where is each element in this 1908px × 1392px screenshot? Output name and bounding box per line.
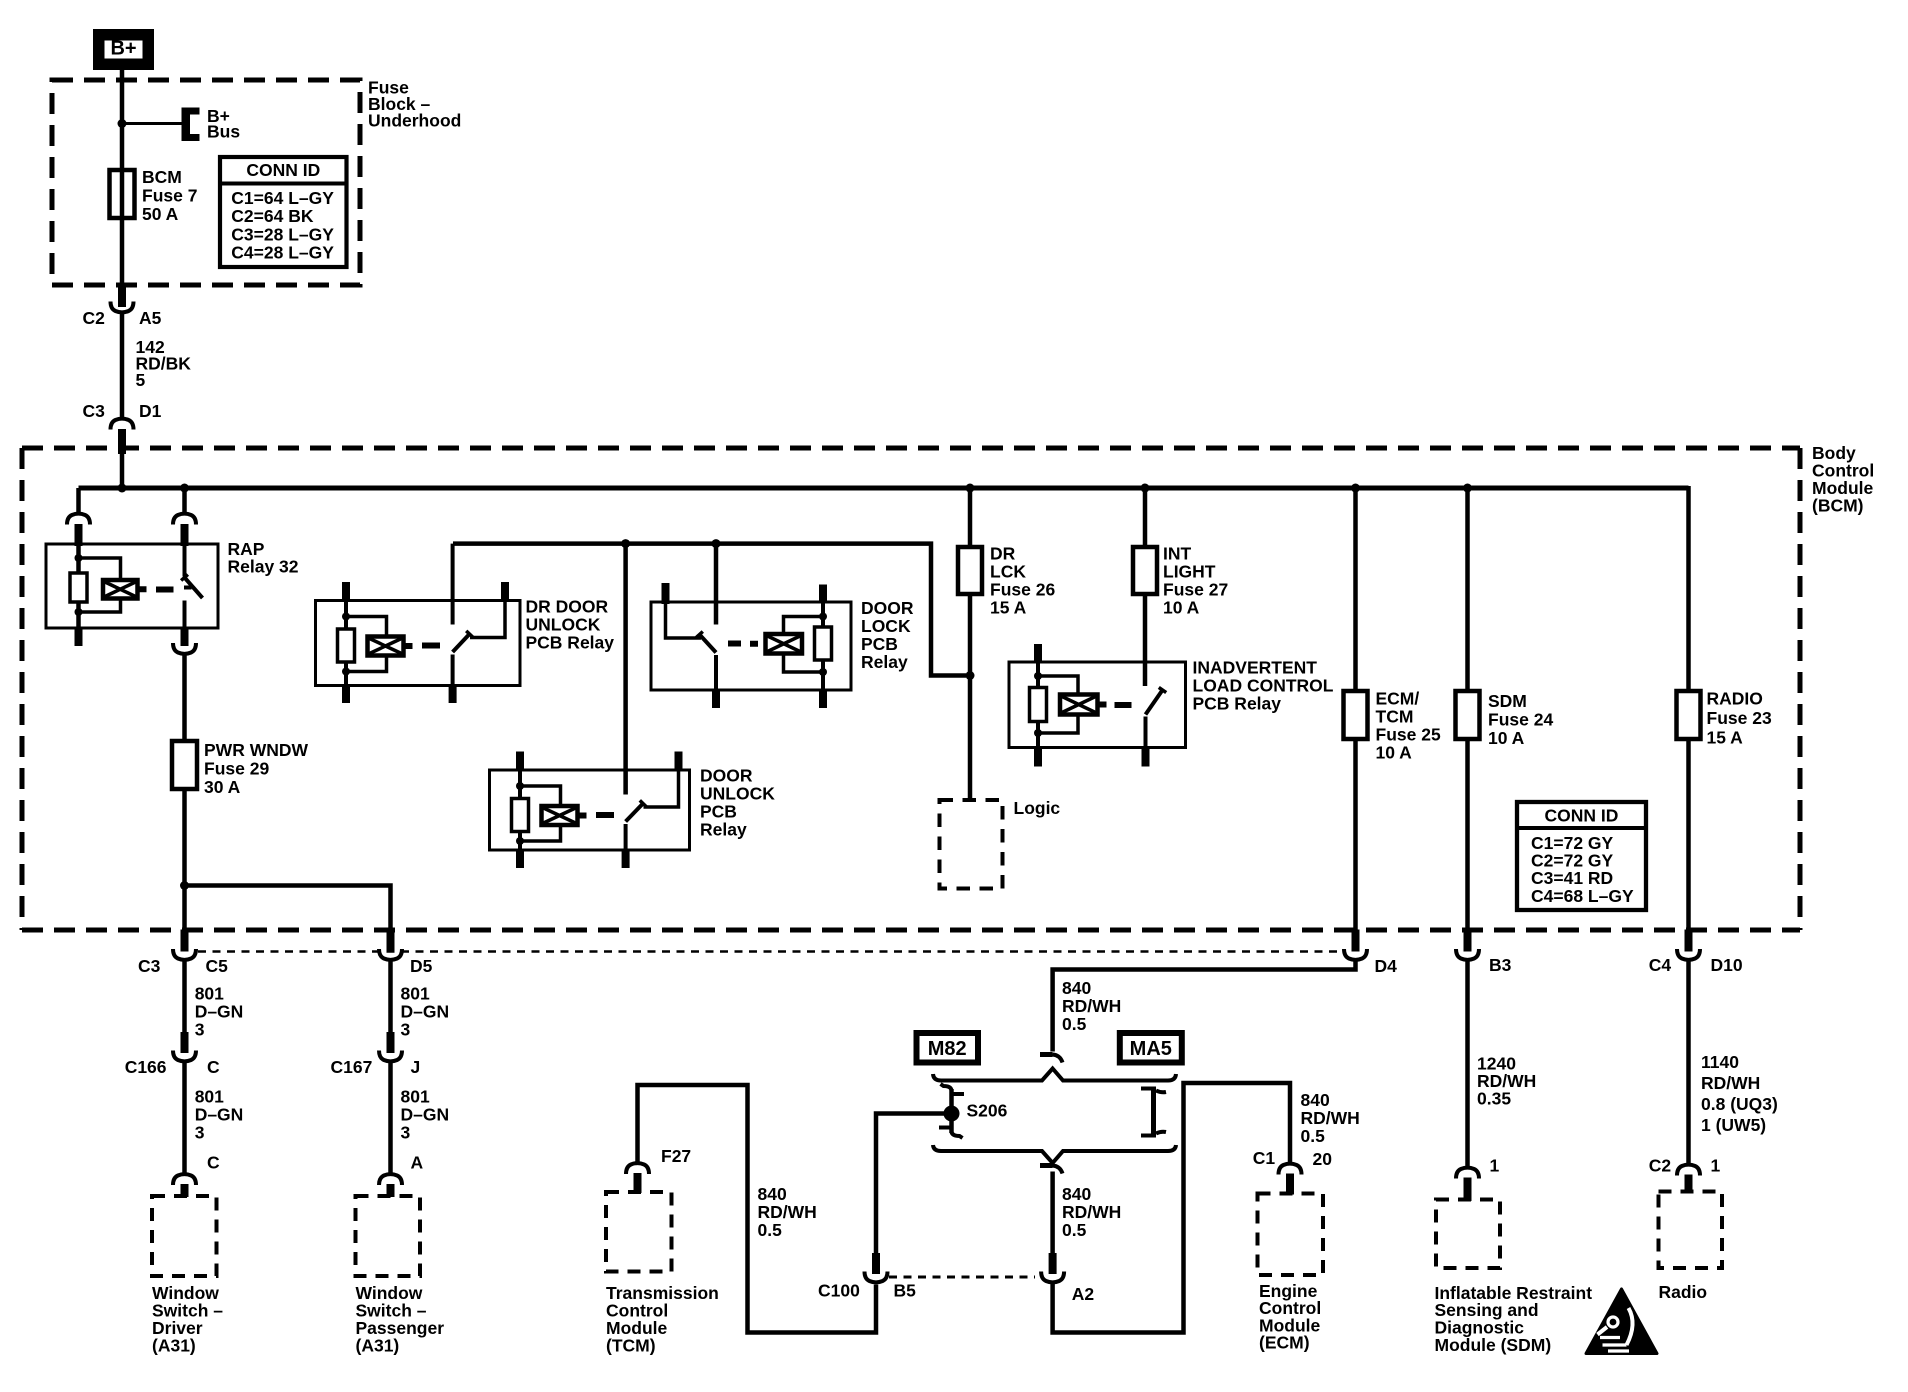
INADVERTENT coil leg <box>1036 662 1040 688</box>
junction dot bus at INT LIGHT fuse <box>1141 484 1150 493</box>
wire C166 to window switch driver <box>182 1061 187 1173</box>
fuse PWR WNDW Fuse 29 30 A <box>172 741 197 789</box>
wire into BCM <box>120 450 125 488</box>
svg-text:30 A: 30 A <box>204 777 241 797</box>
svg-text:801: 801 <box>195 1087 224 1107</box>
DOOR LOCK coil loop <box>784 617 824 635</box>
svg-text:Fuse 24: Fuse 24 <box>1488 709 1553 729</box>
RAP switch bottom pin <box>181 628 189 646</box>
BCM internal supply bus <box>79 486 1689 491</box>
DOOR UNLOCK switch blade <box>626 804 643 822</box>
body control module dashed box bottom <box>22 928 1800 933</box>
label box MA5 <box>1120 1033 1182 1063</box>
harness break symbol lower <box>1040 1163 1053 1168</box>
DOOR UNLOCK linkage dash <box>596 812 614 818</box>
DOOR UNLOCK coil top pin stub <box>516 752 524 772</box>
svg-text:SDM: SDM <box>1488 691 1527 711</box>
wire 142 RD/BK <box>120 313 125 418</box>
svg-text:10 A: 10 A <box>1163 597 1200 617</box>
relay switch feed bus <box>453 544 966 676</box>
fuse BCM Fuse 7 50 A <box>110 170 135 218</box>
fuse DR LCK Fuse 26 15 A <box>958 547 982 594</box>
junction dot switch feed tap <box>966 671 975 680</box>
relay DR DOOR UNLOCK box <box>316 601 521 686</box>
resistor RAP parallel <box>70 573 87 602</box>
connector C5 at BCM <box>181 930 189 952</box>
svg-text:BCM: BCM <box>142 167 182 187</box>
harness brace lower <box>933 1145 1176 1163</box>
inflatable restraint SDM dashed box <box>1436 1200 1500 1269</box>
fuse INT LIGHT Fuse 27 10 A <box>1133 547 1157 594</box>
svg-text:RD/WH: RD/WH <box>1701 1073 1760 1093</box>
body control module dashed box right <box>1798 448 1803 930</box>
INADVERTENT coil bottom pin stub <box>1034 748 1042 767</box>
svg-text:15 A: 15 A <box>1707 727 1744 747</box>
svg-text:3: 3 <box>195 1123 205 1143</box>
DR DOOR UNLOCK linkage dash <box>422 643 440 649</box>
wire branch to D5 <box>185 886 391 930</box>
DR DOOR UNLOCK coil top pin stub <box>342 582 350 602</box>
fuse ECM/TCM Fuse 25 10 A <box>1344 691 1368 739</box>
wire bus to RAP switch pin <box>182 488 187 513</box>
DOOR UNLOCK coil leg <box>518 770 522 799</box>
svg-text:C2: C2 <box>1649 1155 1672 1175</box>
svg-text:10 A: 10 A <box>1488 728 1525 748</box>
connector C2 pin A5 <box>118 285 126 307</box>
wire TCM F27 loop <box>638 1085 877 1333</box>
wire D4 to harness break <box>1053 960 1356 1052</box>
DOOR UNLOCK switch bottom pin stub <box>622 850 630 868</box>
svg-text:RD/WH: RD/WH <box>1062 1202 1121 1222</box>
RAP coil loop wires <box>79 558 121 580</box>
connector C3 pin D1 <box>111 419 134 430</box>
svg-text:Relay 32: Relay 32 <box>228 556 299 576</box>
connector B3 at BCM <box>1464 930 1472 952</box>
svg-text:(A31): (A31) <box>356 1335 400 1355</box>
junction dot bus at ECM/TCM fuse <box>1351 484 1360 493</box>
svg-text:CONN ID: CONN ID <box>246 160 320 180</box>
svg-text:C4=28 L–GY: C4=28 L–GY <box>231 243 334 263</box>
wire INT LIGHT fuse to INADVERTENT switch <box>1143 594 1148 686</box>
window switch passenger dashed box <box>356 1196 421 1276</box>
svg-text:0.8 (UQ3): 0.8 (UQ3) <box>1701 1094 1778 1114</box>
connector window switch passenger <box>379 1174 402 1185</box>
junction dot bus at C3 feed <box>118 484 127 493</box>
svg-text:LOAD CONTROL: LOAD CONTROL <box>1193 675 1334 695</box>
INADVERTENT switch blade <box>1146 690 1163 715</box>
svg-text:C166: C166 <box>125 1057 167 1077</box>
connector RAP coil pin <box>67 514 90 525</box>
svg-text:0.5: 0.5 <box>1062 1014 1087 1034</box>
svg-text:840: 840 <box>1062 1184 1091 1204</box>
resistor INADVERTENT <box>1030 688 1047 722</box>
svg-text:A5: A5 <box>139 308 162 328</box>
wire ECM/TCM fuse to D4 <box>1353 739 1358 930</box>
DOOR LOCK switch bottom contact <box>714 655 718 690</box>
wire to B+ bus <box>122 122 182 125</box>
svg-text:0.5: 0.5 <box>1301 1126 1326 1146</box>
wire S206 feed from C100 <box>876 1114 952 1254</box>
wire feed down to DOOR LOCK switch <box>714 544 719 625</box>
svg-text:UNLOCK: UNLOCK <box>700 783 775 803</box>
RAP coil leg junction dots <box>75 554 83 562</box>
svg-text:840: 840 <box>1301 1090 1330 1110</box>
svg-text:0.5: 0.5 <box>758 1220 783 1240</box>
svg-text:A: A <box>411 1152 424 1172</box>
svg-text:D–GN: D–GN <box>195 1001 244 1021</box>
DOOR UNLOCK throw contact L-wire <box>644 770 679 807</box>
wire break to A2 <box>1050 1172 1055 1254</box>
wire DR LCK fuse to Logic <box>968 594 973 800</box>
svg-text:Logic: Logic <box>1014 798 1061 818</box>
connector F27 at TCM <box>626 1163 649 1174</box>
svg-text:Fuse 7: Fuse 7 <box>142 185 197 205</box>
wire D10 to Radio <box>1686 960 1691 1164</box>
wire C167 to window switch passenger <box>388 1061 393 1173</box>
svg-text:INT: INT <box>1163 543 1192 563</box>
B+ Bus terminal symbol <box>182 108 191 142</box>
window switch driver dashed box <box>152 1196 217 1276</box>
DOOR LOCK coil leg <box>821 602 825 627</box>
svg-text:DOOR: DOOR <box>861 598 914 618</box>
DOOR LOCK throw contact L-wire <box>666 602 702 638</box>
svg-text:PCB: PCB <box>700 801 737 821</box>
RAP switch blade <box>185 578 203 599</box>
INADVERTENT switch bottom contact <box>1144 717 1148 748</box>
svg-text:A2: A2 <box>1072 1284 1095 1304</box>
DR DOOR UNLOCK coil leg <box>344 601 348 630</box>
DOOR LOCK coil top pin stub <box>819 585 827 603</box>
DOOR UNLOCK right pin stub <box>675 752 683 772</box>
svg-text:C167: C167 <box>331 1057 373 1077</box>
wire bus to INT LIGHT fuse <box>1143 488 1148 548</box>
DR DOOR UNLOCK right pin stub <box>501 582 509 602</box>
svg-text:1 (UW5): 1 (UW5) <box>1701 1115 1766 1135</box>
DOOR LOCK switch bottom pin stub <box>712 690 720 708</box>
svg-text:RD/WH: RD/WH <box>1301 1108 1360 1128</box>
svg-text:0.35: 0.35 <box>1477 1088 1511 1108</box>
svg-text:1140: 1140 <box>1701 1052 1739 1072</box>
svg-text:UNLOCK: UNLOCK <box>526 615 601 635</box>
svg-text:3: 3 <box>401 1123 411 1143</box>
label box M82 <box>917 1033 979 1063</box>
coil DOOR LOCK <box>766 634 803 654</box>
coil DR DOOR UNLOCK <box>368 637 404 656</box>
svg-text:J: J <box>411 1057 421 1077</box>
harness break symbol upper <box>1040 1052 1053 1057</box>
connector C100 dotted line <box>889 1276 1035 1279</box>
INADVERTENT coil loop <box>1038 676 1078 695</box>
junction dot at B+ bus tap <box>118 119 127 128</box>
svg-text:C: C <box>207 1057 220 1077</box>
RAP coil leg wire <box>76 546 81 573</box>
connector D4 at BCM <box>1352 930 1360 952</box>
svg-text:CONN ID: CONN ID <box>1545 805 1619 825</box>
radio dashed box <box>1659 1192 1723 1269</box>
junction dot feed to DOOR LOCK relay <box>712 539 721 548</box>
connector A2 <box>1049 1253 1057 1274</box>
svg-text:D–GN: D–GN <box>401 1001 450 1021</box>
junction dot bus at DR LCK fuse <box>966 484 975 493</box>
svg-text:PCB Relay: PCB Relay <box>526 633 615 653</box>
splice terminal S206 hooks <box>941 1084 952 1090</box>
svg-text:C5: C5 <box>206 956 229 976</box>
junction dot window feed split <box>180 881 189 890</box>
wire C5 to C166 <box>182 960 187 1033</box>
CONN ID table BCM <box>1517 802 1646 910</box>
DR DOOR UNLOCK coil junction dots <box>342 613 350 621</box>
coil DOOR UNLOCK <box>542 806 578 825</box>
wire B+ down through fuse block <box>120 70 125 285</box>
junction dot bus at SDM fuse <box>1463 484 1472 493</box>
svg-text:Fuse 29: Fuse 29 <box>204 758 269 778</box>
svg-text:3: 3 <box>401 1019 411 1039</box>
DOOR LOCK left pin stub <box>662 583 670 604</box>
svg-text:840: 840 <box>758 1184 787 1204</box>
wire SDM fuse to B3 <box>1465 739 1470 930</box>
coil INADVERTENT <box>1060 695 1098 715</box>
svg-text:DOOR: DOOR <box>700 765 753 785</box>
DOOR UNLOCK coil junction dots <box>516 782 524 790</box>
DR DOOR UNLOCK switch blade <box>453 634 470 652</box>
svg-text:1: 1 <box>1711 1155 1721 1175</box>
DOOR UNLOCK switch top contact <box>624 770 628 795</box>
svg-text:C1=64 L–GY: C1=64 L–GY <box>231 188 334 208</box>
svg-text:5: 5 <box>136 370 146 390</box>
svg-text:801: 801 <box>401 1087 430 1107</box>
INADVERTENT switch bottom pin stub <box>1142 748 1150 767</box>
wire bus to RAP coil pin <box>76 488 81 513</box>
wire B3 to SDM <box>1465 960 1470 1167</box>
DOOR UNLOCK switch bottom contact <box>624 824 628 850</box>
fuse RADIO Fuse 23 15 A <box>1677 691 1701 739</box>
Logic dashed box <box>940 800 1003 889</box>
svg-text:(ECM): (ECM) <box>1259 1333 1310 1353</box>
svg-text:C2: C2 <box>83 308 106 328</box>
resistor DOOR UNLOCK <box>512 799 529 832</box>
relay INADVERTENT LOAD CONTROL box <box>1009 662 1186 748</box>
svg-text:ECM/: ECM/ <box>1376 688 1420 708</box>
transmission control module dashed box <box>606 1192 672 1272</box>
wire feed down to DOOR UNLOCK switch <box>623 544 628 795</box>
wire RADIO fuse to D10 <box>1686 739 1691 930</box>
svg-text:MA5: MA5 <box>1130 1038 1172 1060</box>
splice terminal MA5-side <box>1151 1090 1156 1135</box>
svg-text:C100: C100 <box>818 1280 860 1300</box>
wire bus corner to RADIO fuse <box>1686 486 1691 692</box>
coil RAP <box>103 580 138 599</box>
connector SDM pin 1 <box>1456 1168 1479 1179</box>
relay DOOR LOCK box <box>651 602 851 690</box>
svg-text:Fuse 23: Fuse 23 <box>1707 708 1772 728</box>
svg-text:C3=28 L–GY: C3=28 L–GY <box>231 224 334 244</box>
DR DOOR UNLOCK coil loop <box>346 617 387 637</box>
body control module dashed box top <box>22 446 1800 451</box>
svg-text:LCK: LCK <box>990 561 1026 581</box>
DOOR LOCK coil junction dots <box>819 613 827 621</box>
wire bus to SDM fuse <box>1465 488 1470 692</box>
svg-text:801: 801 <box>401 983 430 1003</box>
svg-text:PCB: PCB <box>861 634 898 654</box>
connector RAP switch pin <box>173 514 196 525</box>
svg-text:RADIO: RADIO <box>1707 688 1763 708</box>
svg-text:D4: D4 <box>1375 956 1398 976</box>
DR DOOR UNLOCK switch top contact <box>451 544 455 625</box>
relay DOOR UNLOCK box <box>490 770 690 850</box>
svg-text:RD/WH: RD/WH <box>1062 996 1121 1016</box>
svg-text:Radio: Radio <box>1659 1282 1708 1302</box>
svg-text:TCM: TCM <box>1376 706 1414 726</box>
svg-text:D–GN: D–GN <box>401 1105 450 1125</box>
svg-text:Bus: Bus <box>207 121 240 141</box>
DOOR LOCK switch blade <box>700 635 717 653</box>
svg-text:LOCK: LOCK <box>861 616 911 636</box>
svg-text:20: 20 <box>1313 1149 1333 1169</box>
svg-text:15 A: 15 A <box>990 597 1027 617</box>
wire D5 to C167 <box>388 960 393 1033</box>
svg-text:10 A: 10 A <box>1376 742 1413 762</box>
svg-text:DR DOOR: DR DOOR <box>526 596 609 616</box>
svg-text:Fuse 25: Fuse 25 <box>1376 724 1441 744</box>
wire RAP to PWR WNDW fuse <box>182 655 187 742</box>
resistor DR DOOR UNLOCK <box>338 629 355 662</box>
RAP switch top contact <box>183 546 187 577</box>
svg-text:50 A: 50 A <box>142 204 179 224</box>
svg-text:D1: D1 <box>139 401 162 421</box>
DR DOOR UNLOCK switch bottom contact <box>451 655 455 686</box>
inline connector row dotted line <box>198 950 1342 953</box>
svg-text:801: 801 <box>195 983 224 1003</box>
svg-text:Fuse 26: Fuse 26 <box>990 579 1055 599</box>
svg-text:1: 1 <box>1490 1155 1500 1175</box>
svg-text:C2=64 BK: C2=64 BK <box>231 206 314 226</box>
svg-text:(BCM): (BCM) <box>1812 495 1864 515</box>
connector C1 pin 20 <box>1279 1164 1302 1175</box>
wire bus to DR LCK fuse <box>968 488 973 548</box>
connector window switch driver <box>173 1174 196 1185</box>
splice terminal S206 stem <box>949 1089 954 1133</box>
body control module dashed box left <box>20 448 25 930</box>
svg-text:D10: D10 <box>1711 955 1743 975</box>
svg-text:S206: S206 <box>967 1100 1008 1120</box>
connector D10 at BCM <box>1685 930 1693 952</box>
INADVERTENT linkage dash <box>1115 702 1132 708</box>
harness brace upper <box>933 1069 1176 1081</box>
svg-text:C3: C3 <box>83 401 106 421</box>
DOOR LOCK linkage dash <box>728 641 741 647</box>
svg-text:PWR WNDW: PWR WNDW <box>204 740 308 760</box>
DR DOOR UNLOCK switch bottom pin stub <box>449 686 457 704</box>
RAP switch bottom contact <box>183 601 187 629</box>
svg-text:C3: C3 <box>138 956 161 976</box>
svg-text:M82: M82 <box>928 1038 967 1060</box>
RAP linkage dash <box>156 587 174 593</box>
CONN ID table fuse block <box>220 157 347 267</box>
svg-text:F27: F27 <box>661 1146 691 1166</box>
airbag warning triangle icon <box>1586 1289 1657 1354</box>
DOOR UNLOCK coil bottom pin stub <box>516 850 524 868</box>
connector radio C2 pin 1 <box>1677 1165 1700 1176</box>
svg-text:RD/WH: RD/WH <box>758 1202 817 1222</box>
power feed B+ terminal <box>93 29 154 70</box>
svg-text:B5: B5 <box>894 1280 917 1300</box>
svg-text:D–GN: D–GN <box>195 1105 244 1125</box>
fuse block underhood dashed box <box>52 80 360 285</box>
engine control module dashed box <box>1258 1194 1324 1276</box>
svg-text:C1: C1 <box>1253 1148 1276 1168</box>
svg-text:PCB Relay: PCB Relay <box>1193 693 1282 713</box>
junction dot bus at RAP switch <box>180 484 189 493</box>
relay RAP Relay 32 box <box>46 544 218 628</box>
DOOR UNLOCK coil loop <box>520 786 561 806</box>
svg-text:C4: C4 <box>1649 955 1672 975</box>
svg-text:B+: B+ <box>110 38 136 60</box>
svg-text:LIGHT: LIGHT <box>1163 561 1216 581</box>
RAP coil bottom pin stub <box>75 628 83 646</box>
connector C166 pin C <box>181 1032 189 1053</box>
svg-text:B3: B3 <box>1489 955 1512 975</box>
svg-text:Fuse 27: Fuse 27 <box>1163 579 1228 599</box>
svg-text:C: C <box>207 1152 220 1172</box>
svg-text:C4=68 L–GY: C4=68 L–GY <box>1531 886 1634 906</box>
connector C167 pin J <box>387 1032 395 1053</box>
connector D5 at BCM <box>387 930 395 952</box>
svg-text:3: 3 <box>195 1019 205 1039</box>
wire PWR WNDW fuse to C5 <box>182 789 187 930</box>
svg-text:Module (SDM): Module (SDM) <box>1435 1335 1552 1355</box>
svg-text:(A31): (A31) <box>152 1335 196 1355</box>
svg-text:D5: D5 <box>410 956 433 976</box>
svg-text:Relay: Relay <box>700 819 747 839</box>
junction dot feed to DOOR UNLOCK relay <box>621 539 630 548</box>
DOOR LOCK coil bottom pin stub <box>819 690 827 708</box>
DR DOOR UNLOCK throw contact L-wire <box>470 601 505 638</box>
svg-text:DR: DR <box>990 543 1016 563</box>
svg-text:840: 840 <box>1062 978 1091 998</box>
svg-text:Underhood: Underhood <box>368 110 461 130</box>
splice junction dot S206 <box>944 1106 960 1122</box>
svg-text:Relay: Relay <box>861 652 908 672</box>
wire bus to ECM/TCM fuse <box>1353 488 1358 692</box>
fuse SDM Fuse 24 10 A <box>1456 691 1480 739</box>
resistor DOOR LOCK <box>815 627 832 660</box>
INADVERTENT coil junction dots <box>1034 672 1042 680</box>
svg-text:0.5: 0.5 <box>1062 1220 1087 1240</box>
svg-text:INADVERTENT: INADVERTENT <box>1193 657 1318 677</box>
connector C100 pin B5 <box>872 1253 880 1274</box>
DR DOOR UNLOCK coil bottom pin stub <box>342 686 350 704</box>
svg-text:(TCM): (TCM) <box>606 1335 656 1355</box>
INADVERTENT coil top pin stub <box>1034 644 1042 664</box>
wire A2 to ECM <box>1053 1083 1290 1333</box>
